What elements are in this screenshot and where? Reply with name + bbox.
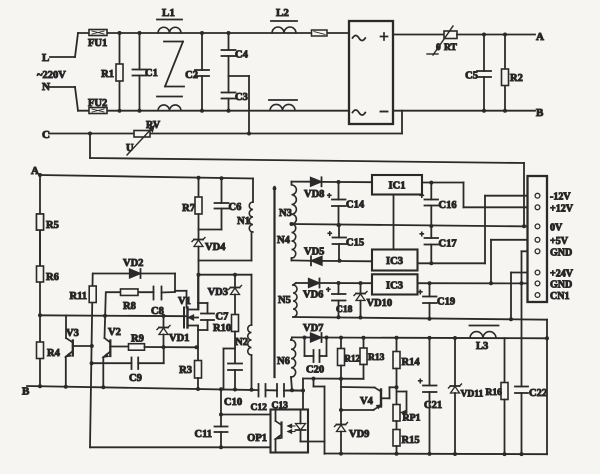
svg-text:R11: R11 bbox=[69, 291, 87, 302]
svg-text:C9: C9 bbox=[129, 373, 142, 384]
svg-text:+: + bbox=[420, 230, 425, 239]
connector pin labels bbox=[550, 192, 574, 303]
wire divider row bbox=[303, 377, 364, 381]
wire emitter rail bbox=[90, 446, 271, 448]
svg-text:V2: V2 bbox=[108, 327, 121, 338]
resistor R1 bbox=[101, 31, 123, 113]
svg-text:+: + bbox=[327, 192, 332, 201]
capacitor C14 bbox=[327, 182, 365, 227]
transistor V2 bbox=[103, 292, 128, 387]
svg-text:RT: RT bbox=[444, 43, 458, 53]
resistor R2 bbox=[482, 35, 523, 113]
svg-text:VD3: VD3 bbox=[208, 287, 228, 298]
diode VD11 (zener) bbox=[449, 338, 484, 456]
capacitor C22 bbox=[515, 387, 547, 457]
wire 0V line bbox=[290, 222, 538, 228]
svg-text:C20: C20 bbox=[306, 365, 324, 376]
transistor V3 bbox=[66, 315, 92, 386]
winding N4 bbox=[277, 224, 296, 258]
resistor R7 bbox=[182, 178, 202, 230]
diode VD6 bbox=[296, 279, 372, 301]
resistor R10 bbox=[213, 315, 239, 363]
svg-text:B: B bbox=[536, 107, 544, 119]
svg-text:VD11: VD11 bbox=[461, 390, 484, 400]
capacitor C9 bbox=[92, 347, 164, 384]
svg-text:+: + bbox=[326, 286, 331, 295]
thermistor RT bbox=[427, 26, 458, 55]
svg-text:R10: R10 bbox=[213, 323, 231, 334]
diode VD10 (zener) bbox=[354, 283, 392, 317]
svg-text:R1: R1 bbox=[101, 69, 114, 80]
connector CN1 bbox=[528, 176, 548, 302]
diode VD2 bbox=[93, 258, 175, 278]
wire gate feed bbox=[175, 291, 187, 308]
svg-text:N2: N2 bbox=[235, 337, 248, 348]
capacitor C10 bbox=[224, 364, 242, 409]
svg-text:R4: R4 bbox=[47, 348, 61, 359]
wire A rail bbox=[457, 33, 535, 37]
svg-text:VD5: VD5 bbox=[304, 247, 324, 258]
transistor V4 bbox=[341, 385, 399, 410]
resistor R5 bbox=[37, 214, 59, 266]
resistor R6 bbox=[37, 266, 59, 283]
svg-text:C21: C21 bbox=[424, 400, 442, 411]
svg-text:+12V: +12V bbox=[550, 204, 574, 215]
svg-text:VD10: VD10 bbox=[367, 298, 393, 309]
svg-text:VD8: VD8 bbox=[304, 189, 324, 200]
svg-text:VD7: VD7 bbox=[303, 323, 323, 334]
wire RV row to 0V bbox=[90, 134, 524, 164]
diode VD1 (zener) bbox=[157, 316, 189, 347]
wire bridge + output bbox=[393, 34, 444, 36]
varistor RV bbox=[126, 120, 161, 155]
svg-text:RV: RV bbox=[146, 120, 161, 131]
wire left vertical bbox=[39, 175, 41, 386]
node A (output +) bbox=[536, 31, 544, 43]
winding N6 bbox=[277, 337, 296, 390]
svg-text:VD2: VD2 bbox=[123, 258, 143, 269]
optocoupler OP1 bbox=[247, 410, 308, 453]
svg-text:C6: C6 bbox=[229, 202, 242, 213]
svg-text:A: A bbox=[31, 165, 39, 177]
wire opto LED cathode bbox=[308, 377, 325, 454]
svg-text:C5: C5 bbox=[465, 71, 478, 82]
wire +24V feed bbox=[511, 273, 535, 320]
svg-text:L2: L2 bbox=[276, 7, 289, 19]
svg-text:C16: C16 bbox=[439, 200, 457, 211]
wire R11 line bbox=[90, 274, 94, 448]
capacitor C12 bbox=[251, 384, 268, 413]
svg-text:C15: C15 bbox=[346, 238, 364, 249]
svg-text:N3: N3 bbox=[279, 208, 292, 219]
diode VD5 bbox=[292, 247, 373, 266]
svg-text:RP1: RP1 bbox=[403, 413, 421, 424]
wire GND feed bbox=[522, 251, 536, 386]
wire 0V drop to connector bbox=[523, 163, 525, 226]
wire IC1 to IC3 bbox=[393, 195, 395, 250]
bridge rectifier U (rectifier block) bbox=[349, 21, 393, 124]
capacitor C19 bbox=[418, 281, 455, 319]
svg-text:IC3: IC3 bbox=[386, 256, 403, 267]
svg-text:C: C bbox=[42, 129, 50, 141]
svg-text:R14: R14 bbox=[402, 357, 421, 368]
svg-text:C2: C2 bbox=[185, 70, 198, 81]
svg-text:+5V: +5V bbox=[550, 236, 569, 247]
wire C10 bypass bbox=[224, 349, 236, 390]
regulator IC3 bbox=[372, 250, 418, 271]
resistor R15 bbox=[393, 421, 420, 456]
wire B row bbox=[27, 384, 303, 391]
wire B rail bbox=[393, 110, 535, 112]
capacitor C6 bbox=[215, 178, 242, 229]
diode VD9 (zener) bbox=[335, 423, 370, 456]
label ~220V bbox=[37, 70, 66, 81]
svg-text:N6: N6 bbox=[277, 356, 290, 367]
svg-text:C12: C12 bbox=[251, 403, 268, 413]
wire top rail bbox=[78, 32, 349, 34]
capacitor C13 bbox=[272, 384, 289, 411]
svg-text:IC1: IC1 bbox=[389, 181, 406, 192]
svg-text:R2: R2 bbox=[510, 73, 523, 84]
wire IC3 output to -12V bbox=[418, 196, 536, 264]
svg-text:R8: R8 bbox=[123, 301, 136, 312]
svg-text:C1: C1 bbox=[145, 68, 158, 79]
svg-text:B: B bbox=[22, 386, 30, 398]
svg-text:C3: C3 bbox=[235, 92, 248, 103]
svg-text:R12: R12 bbox=[345, 354, 361, 364]
capacitor C5 bbox=[465, 35, 491, 111]
winding N3 bbox=[279, 185, 296, 224]
svg-text:θ: θ bbox=[436, 42, 441, 52]
node B (left) bbox=[22, 386, 30, 398]
wire C line bbox=[49, 111, 402, 136]
svg-text:C4: C4 bbox=[235, 50, 249, 61]
wire V4 column bbox=[339, 379, 343, 425]
capacitor C21 bbox=[418, 338, 442, 456]
svg-text:VD1: VD1 bbox=[169, 333, 189, 344]
wire R7-C6 join bbox=[199, 229, 222, 231]
fuse FU2 bbox=[88, 98, 107, 114]
transformer core bbox=[273, 187, 277, 377]
svg-text:R6: R6 bbox=[46, 272, 59, 283]
svg-text:FU1: FU1 bbox=[88, 38, 107, 49]
capacitor C2 bbox=[185, 31, 209, 113]
resistor R16 bbox=[486, 338, 509, 456]
svg-text:-12V: -12V bbox=[550, 192, 571, 203]
wire IC1 output to +12V bbox=[422, 181, 535, 208]
wire bottom rail bbox=[325, 453, 548, 456]
svg-text:OP1: OP1 bbox=[247, 433, 267, 444]
capacitor C18 bbox=[326, 283, 353, 317]
inductor L1 (common-mode choke) bbox=[157, 7, 184, 111]
svg-text:V4: V4 bbox=[360, 396, 374, 407]
inductor L3 bbox=[470, 326, 499, 353]
svg-text:C7: C7 bbox=[216, 312, 229, 323]
svg-text:IC3: IC3 bbox=[386, 281, 403, 292]
mosfet V1 bbox=[178, 275, 198, 348]
capacitor C11 bbox=[194, 389, 227, 449]
svg-text:L: L bbox=[42, 52, 49, 64]
svg-text:N4: N4 bbox=[277, 235, 291, 246]
svg-text:R5: R5 bbox=[46, 220, 59, 231]
fuse FU3 (unlabeled link on rail) bbox=[312, 30, 328, 36]
capacitor C1 bbox=[133, 31, 158, 113]
svg-text:+: + bbox=[328, 230, 333, 239]
svg-text:0V: 0V bbox=[550, 223, 563, 234]
svg-text:GND: GND bbox=[550, 280, 572, 291]
svg-text:R7: R7 bbox=[182, 203, 195, 214]
capacitor C20 bbox=[305, 338, 327, 376]
node B (output -) bbox=[536, 107, 544, 119]
svg-text:+24V: +24V bbox=[550, 269, 574, 280]
wire +5V feed bbox=[491, 240, 535, 283]
winding N5 bbox=[278, 283, 297, 317]
svg-text:V3: V3 bbox=[66, 328, 79, 339]
diode VD3 (zener) bbox=[208, 273, 242, 315]
resistor R14 bbox=[393, 338, 420, 388]
svg-text:VD6: VD6 bbox=[303, 290, 323, 301]
svg-text:C14: C14 bbox=[346, 200, 365, 211]
wire VD4 to N1 bottom bbox=[199, 232, 252, 261]
inductor L2 (common-mode choke) bbox=[269, 7, 297, 111]
node N (mains neutral input) bbox=[42, 81, 78, 111]
capacitor C3 bbox=[222, 76, 248, 113]
svg-text:L3: L3 bbox=[476, 341, 488, 352]
resistor R4 bbox=[37, 313, 61, 359]
capacitor C8 bbox=[151, 287, 175, 318]
capacitor C4 bbox=[222, 31, 249, 76]
wire opto collector bbox=[221, 414, 271, 416]
svg-text:U: U bbox=[126, 143, 134, 154]
svg-text:~220V: ~220V bbox=[37, 70, 66, 81]
wire switch row bbox=[292, 336, 547, 341]
wire right frame bbox=[545, 320, 549, 455]
resistor R13 bbox=[360, 338, 385, 379]
winding N2 bbox=[235, 325, 251, 390]
svg-text:+: + bbox=[420, 192, 425, 201]
svg-text:R3: R3 bbox=[179, 365, 192, 376]
wire IC2 output line bbox=[418, 281, 534, 285]
regulator IC1 bbox=[372, 175, 422, 195]
resistor R8 bbox=[106, 289, 154, 312]
svg-text:R13: R13 bbox=[368, 353, 385, 363]
svg-text:VD9: VD9 bbox=[349, 429, 369, 440]
svg-text:N1: N1 bbox=[237, 216, 250, 227]
wire A row bbox=[38, 173, 253, 180]
svg-text:+: + bbox=[418, 288, 423, 297]
potentiometer RP1 bbox=[393, 387, 421, 423]
svg-text:GND: GND bbox=[550, 248, 572, 259]
diode VD7 bbox=[303, 323, 323, 342]
node L (mains live input) bbox=[42, 33, 78, 64]
svg-text:L1: L1 bbox=[162, 7, 175, 19]
svg-text:N5: N5 bbox=[278, 295, 291, 306]
svg-text:A: A bbox=[536, 31, 544, 43]
resistor R11 bbox=[69, 286, 96, 303]
node C bbox=[42, 129, 50, 141]
svg-text:R15: R15 bbox=[402, 435, 420, 446]
svg-text:FU2: FU2 bbox=[88, 98, 107, 109]
svg-text:C11: C11 bbox=[194, 429, 212, 440]
resistor R12 bbox=[338, 338, 361, 379]
wire N5 return line bbox=[293, 315, 547, 321]
capacitor C15 bbox=[328, 225, 365, 263]
wire bottom rail bbox=[78, 110, 349, 112]
capacitor C17 bbox=[420, 226, 457, 265]
diode VD4 (zener) bbox=[192, 230, 226, 261]
regulator IC2 bbox=[372, 274, 418, 294]
resistor R3 bbox=[179, 347, 201, 389]
fuse FU1 bbox=[88, 30, 107, 50]
svg-text:CN1: CN1 bbox=[550, 291, 569, 302]
wire drive row bbox=[40, 314, 187, 318]
wire opto top feed bbox=[284, 379, 305, 410]
wire drain node bbox=[197, 261, 252, 326]
svg-text:R9: R9 bbox=[131, 334, 144, 345]
resistor R9 bbox=[129, 334, 199, 351]
svg-text:C18: C18 bbox=[336, 305, 353, 315]
svg-text:C19: C19 bbox=[437, 297, 455, 308]
svg-text:VD4: VD4 bbox=[205, 242, 226, 253]
diode VD8 bbox=[292, 177, 373, 200]
svg-text:V1: V1 bbox=[178, 296, 191, 307]
wire C4-C3 midpoint to C line bbox=[229, 76, 252, 136]
winding N1 bbox=[237, 178, 253, 232]
svg-text:R16: R16 bbox=[486, 388, 503, 398]
svg-text:+: + bbox=[418, 377, 423, 386]
capacitor C16 bbox=[420, 183, 457, 226]
svg-text:C22: C22 bbox=[529, 388, 547, 399]
node A (left) bbox=[31, 165, 39, 177]
svg-text:C10: C10 bbox=[224, 397, 242, 408]
svg-text:C17: C17 bbox=[439, 239, 457, 250]
capacitor C7 (snubber) bbox=[198, 303, 228, 330]
wire VD2 corner bbox=[174, 274, 176, 291]
